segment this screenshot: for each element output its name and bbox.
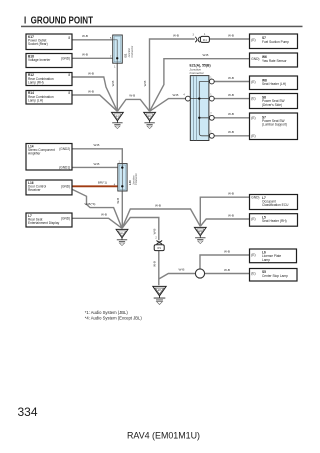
svg-text:(E): (E): [251, 134, 255, 138]
svg-text:(E): (E): [251, 97, 255, 101]
svg-text:Lamp (LH): Lamp (LH): [28, 98, 43, 102]
svg-text:GND): GND): [251, 195, 259, 199]
svg-text:W-B: W-B: [203, 53, 209, 57]
svg-text:2: 2: [155, 237, 157, 240]
svg-text:Connector: Connector: [190, 71, 205, 75]
svg-text:W-B: W-B: [228, 130, 234, 134]
svg-text:W-B: W-B: [116, 198, 120, 204]
svg-text:I GROUND POINT: I GROUND POINT: [24, 15, 93, 26]
svg-text:W-B: W-B: [82, 34, 88, 38]
svg-text:Seat Heater (LH): Seat Heater (LH): [262, 82, 286, 86]
svg-text:Center Stop Lamp: Center Stop Lamp: [262, 274, 288, 278]
svg-text:3: 3: [193, 34, 195, 37]
svg-text:*4: Audio System (Except JBL): *4: Audio System (Except JBL): [85, 316, 143, 321]
svg-text:(GND2): (GND2): [59, 147, 70, 151]
svg-text:(E): (E): [251, 272, 255, 276]
svg-text:*1: Audio System (JBL): *1: Audio System (JBL): [85, 310, 129, 315]
svg-text:IK1: IK1: [203, 38, 207, 42]
svg-text:Yaw Rate Sensor: Yaw Rate Sensor: [262, 59, 288, 63]
svg-text:1: 1: [204, 33, 206, 36]
svg-text:(E): (E): [251, 116, 255, 120]
svg-text:1: 1: [119, 160, 121, 163]
svg-text:W-B: W-B: [228, 33, 234, 37]
svg-text:BR(*1): BR(*1): [98, 181, 107, 185]
svg-text:8: 8: [68, 73, 70, 77]
svg-text:W-B: W-B: [155, 203, 161, 207]
svg-text:W-B: W-B: [228, 93, 234, 97]
svg-text:W-B: W-B: [224, 268, 230, 272]
svg-text:W-B: W-B: [179, 268, 185, 272]
svg-text:334: 334: [18, 405, 38, 419]
svg-text:Amplifier: Amplifier: [28, 152, 41, 156]
svg-text:W-B: W-B: [173, 93, 179, 97]
svg-text:(E): (E): [251, 217, 255, 221]
svg-text:W-B: W-B: [224, 249, 230, 253]
svg-text:W-B: W-B: [143, 81, 147, 87]
svg-text:Receiver: Receiver: [28, 188, 42, 192]
svg-text:Lamp (RH): Lamp (RH): [28, 80, 44, 84]
svg-text:W-B: W-B: [228, 76, 234, 80]
svg-text:Voltage Inverter: Voltage Inverter: [28, 58, 51, 62]
svg-text:(GND): (GND): [61, 216, 70, 220]
svg-text:8: 8: [68, 36, 70, 40]
svg-text:Socket (Rear): Socket (Rear): [28, 42, 48, 46]
svg-text:Seat Heater (RH): Seat Heater (RH): [262, 219, 287, 223]
svg-text:W-B: W-B: [228, 192, 234, 196]
svg-text:Fuel Suction Pump: Fuel Suction Pump: [262, 40, 289, 44]
svg-text:W-B: W-B: [111, 81, 115, 87]
svg-text:(GND): (GND): [61, 56, 70, 60]
svg-text:(GND1): (GND1): [59, 166, 70, 170]
svg-text:EM: EM: [199, 231, 203, 233]
svg-text:W-B: W-B: [228, 213, 234, 217]
svg-text:EK: EK: [148, 116, 152, 118]
svg-text:8: 8: [68, 91, 70, 95]
svg-text:W-B: W-B: [228, 112, 234, 116]
svg-text:W-B: W-B: [82, 53, 88, 57]
svg-text:Entertainment Display: Entertainment Display: [28, 221, 60, 225]
svg-text:(E): (E): [251, 80, 255, 84]
svg-text:W-B: W-B: [88, 89, 94, 93]
svg-text:W-B: W-B: [152, 261, 156, 267]
svg-text:EJ: EJ: [116, 116, 119, 118]
svg-text:W-B: W-B: [88, 71, 94, 75]
svg-text:(Lumbar Support): (Lumbar Support): [262, 123, 287, 127]
svg-text:IP1: IP1: [157, 246, 161, 250]
svg-text:W-B: W-B: [101, 213, 107, 217]
svg-text:GND): GND): [251, 57, 259, 61]
svg-text:1: 1: [114, 65, 116, 68]
svg-text:Classification ECU: Classification ECU: [262, 203, 289, 207]
svg-text:W-B: W-B: [94, 162, 100, 166]
svg-text:W-B: W-B: [129, 94, 135, 98]
svg-text:RAV4 (EM01M1U): RAV4 (EM01M1U): [127, 431, 200, 442]
svg-text:Lamp: Lamp: [262, 258, 270, 262]
svg-text:W-B(*4): W-B(*4): [85, 202, 96, 206]
svg-text:EH: EH: [158, 290, 162, 292]
svg-text:Connector: Connector: [130, 46, 134, 58]
svg-text:Connector: Connector: [134, 173, 138, 185]
svg-text:W-B: W-B: [94, 143, 100, 147]
svg-text:W-B: W-B: [152, 229, 156, 235]
svg-text:4: 4: [183, 93, 185, 96]
svg-text:(GND): (GND): [61, 184, 70, 188]
svg-text:(E): (E): [251, 38, 255, 42]
svg-text:W-B: W-B: [173, 33, 179, 37]
svg-text:(E): (E): [251, 253, 255, 257]
svg-text:(Driver's Side): (Driver's Side): [262, 103, 282, 107]
